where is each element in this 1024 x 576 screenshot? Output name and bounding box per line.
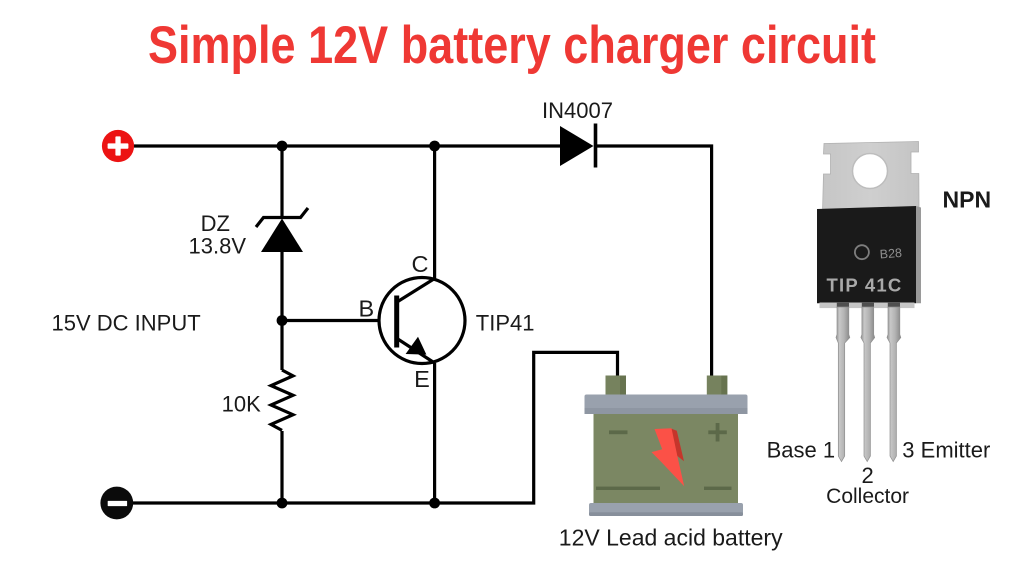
svg-text:12V Lead acid battery: 12V Lead acid battery [559, 525, 783, 551]
svg-text:C: C [412, 251, 429, 277]
svg-text:B28: B28 [879, 246, 902, 262]
svg-text:IN4007: IN4007 [542, 98, 613, 123]
svg-text:B: B [359, 295, 375, 321]
svg-text:Collector: Collector [826, 485, 909, 508]
svg-text:Base 1: Base 1 [767, 438, 836, 463]
svg-text:10K: 10K [222, 392, 261, 417]
svg-text:TIP41: TIP41 [476, 311, 535, 336]
svg-text:E: E [414, 366, 430, 392]
svg-text:15V DC INPUT: 15V DC INPUT [52, 311, 201, 336]
svg-text:Simple 12V battery charger cir: Simple 12V battery charger circuit [148, 16, 876, 75]
svg-text:13.8V: 13.8V [189, 234, 247, 259]
svg-text:DZ: DZ [201, 211, 230, 236]
svg-text:TIP 41C: TIP 41C [827, 275, 903, 296]
svg-text:3 Emitter: 3 Emitter [902, 438, 990, 463]
svg-text:NPN: NPN [943, 187, 992, 213]
